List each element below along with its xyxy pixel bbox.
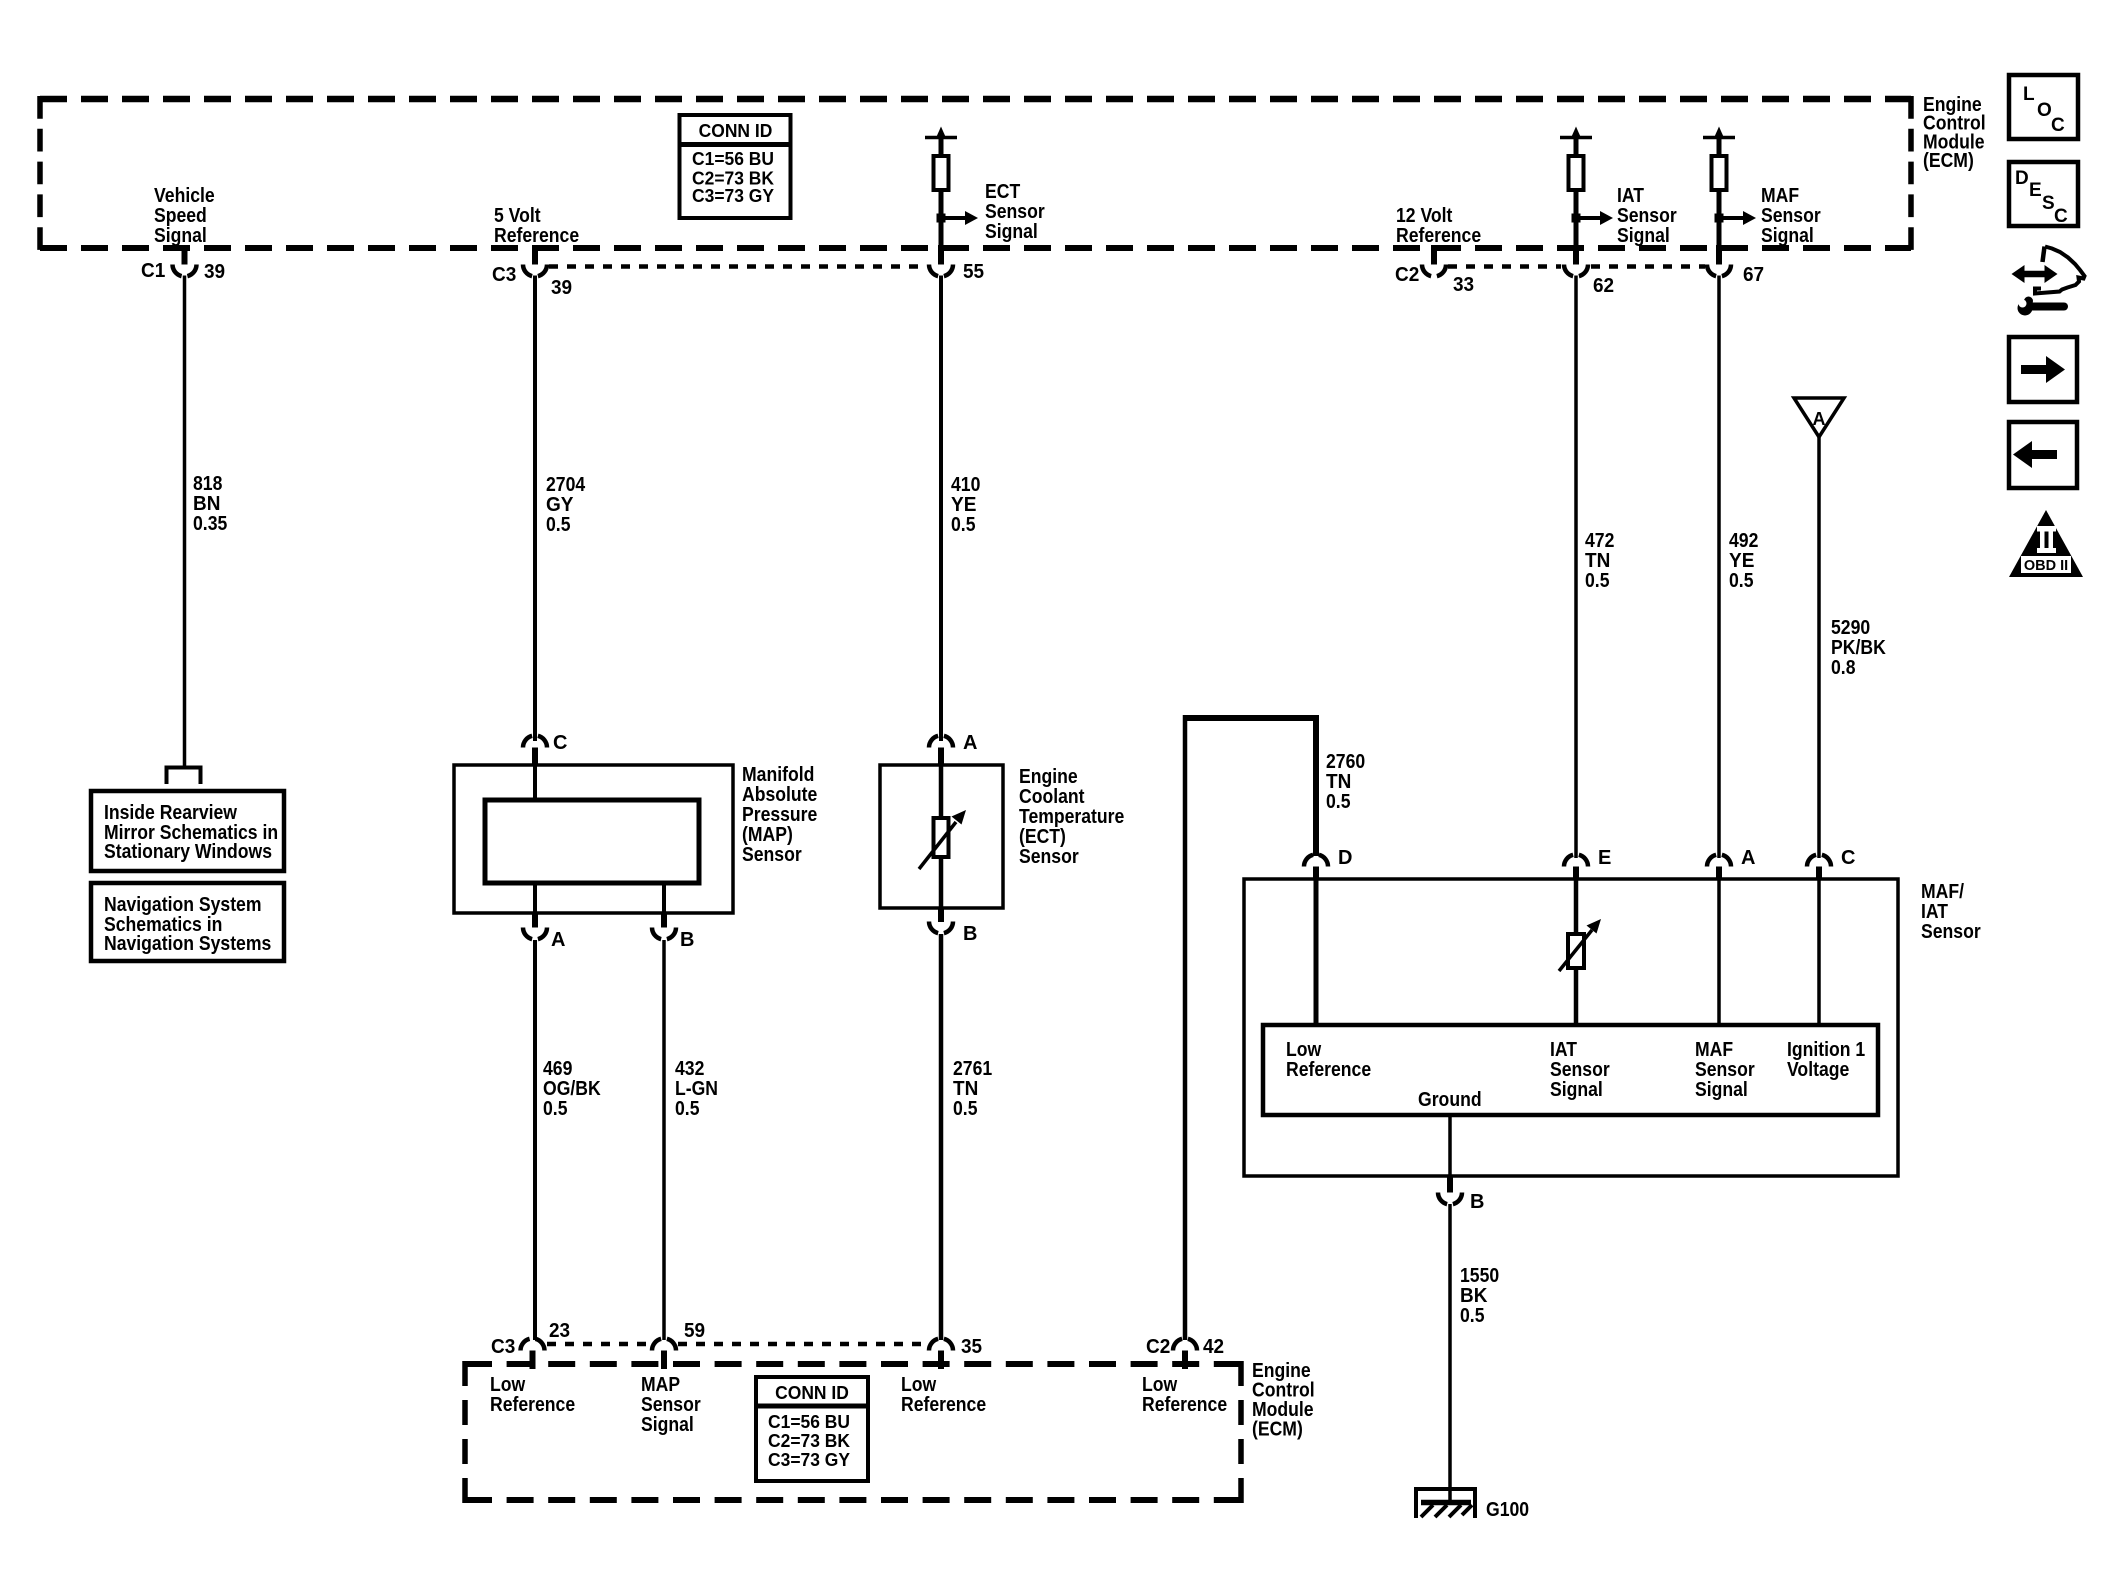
svg-text:Signal: Signal [985,221,1038,243]
node: CONN ID table (top) [680,115,791,218]
svg-text:(ECT): (ECT) [1019,826,1066,848]
svg-text:YE: YE [1729,550,1754,572]
wire 492 YE 0.5 [1717,276,1721,859]
svg-text:OG/BK: OG/BK [543,1078,601,1100]
wire: ECM bottom dashed box left edge [462,1361,468,1503]
svg-text:L-GN: L-GN [675,1078,718,1100]
svg-text:Reference: Reference [1142,1394,1227,1416]
thermistor ECT variable resistor [939,765,944,820]
svg-text:A: A [1813,409,1826,429]
svg-text:A: A [551,929,565,951]
svg-text:Sensor: Sensor [1761,205,1821,227]
svg-text:0.5: 0.5 [1326,791,1351,813]
wire: ECM top dashed box top edge [40,96,1911,103]
svg-text:59: 59 [684,1320,705,1342]
svg-text:0.5: 0.5 [546,514,571,536]
svg-text:Navigation Systems: Navigation Systems [104,933,271,955]
node: connector pin 59 [652,1339,676,1351]
wire 432 L-GN 0.5 [662,940,666,1340]
svg-text:Reference: Reference [1286,1059,1371,1081]
wire 2760 TN 0.5 [1183,715,1188,1340]
svg-text:0.5: 0.5 [543,1098,568,1120]
svg-text:Speed: Speed [154,205,207,227]
node: OBD II warning triangle [2009,510,2083,577]
node: ECT connector pin B [938,908,944,922]
svg-text:(ECM): (ECM) [1252,1419,1303,1441]
wire 1550 BK 0.5 [1448,1204,1452,1502]
node: MAF/IAT sensor outer box [1244,879,1898,1176]
svg-text:L: L [2023,84,2035,105]
wire 410 YE 0.5 [939,276,943,742]
svg-text:Sensor: Sensor [1550,1059,1610,1081]
wire: A internal [1717,879,1721,1025]
svg-text:C: C [1841,847,1855,869]
svg-text:Signal: Signal [1761,225,1814,247]
resistor R-MAF [1712,156,1727,190]
svg-text:C: C [553,732,567,754]
svg-text:C2=73 BK: C2=73 BK [768,1431,850,1451]
wire: dotted connector group line C3 (39-55) [549,264,927,269]
svg-text:0.5: 0.5 [1585,570,1610,592]
svg-text:MAF: MAF [1695,1039,1733,1061]
wire: D internal [1314,879,1319,1025]
svg-text:B: B [680,929,694,951]
svg-text:D: D [1338,847,1352,869]
wire: ground internal [1448,1115,1452,1176]
wire 469 OG/BK 0.5 [533,940,537,1340]
wire: ECM top dashed box right edge [1908,96,1914,251]
svg-text:55: 55 [963,261,984,283]
node: vehicle view icon (car with double arrow and wrench) [2024,271,2045,278]
svg-text:0.5: 0.5 [1729,570,1754,592]
node: connector pin 35 [929,1339,953,1351]
svg-text:C: C [2051,115,2065,136]
svg-text:C2: C2 [1146,1336,1170,1358]
svg-text:Absolute: Absolute [742,784,817,806]
node: connector pin 67 [1716,245,1722,265]
node: MAF/IAT connector pin D [1313,867,1319,880]
resistor pull-up R-MAF supply bar [1703,136,1735,140]
node: connector pin 55 [938,245,944,265]
svg-text:TN: TN [953,1078,978,1100]
svg-text:C3: C3 [491,1336,515,1358]
resistor pull-up R-IAT supply bar [1560,136,1592,140]
svg-text:Signal: Signal [1550,1079,1603,1101]
svg-text:GY: GY [546,494,574,516]
svg-text:67: 67 [1743,264,1764,286]
node: LOC icon box [2009,75,2078,139]
svg-text:(MAP): (MAP) [742,824,793,846]
svg-text:39: 39 [551,277,572,299]
svg-text:Temperature: Temperature [1019,806,1124,828]
svg-text:2704: 2704 [546,474,586,496]
svg-text:Low: Low [901,1374,937,1396]
svg-text:818: 818 [193,473,222,495]
svg-text:IAT: IAT [1921,901,1948,923]
wire: C internal [1817,879,1821,1025]
wire 472 TN 0.5 [1574,276,1578,859]
node: MAP connector pin A [532,913,538,928]
svg-text:Low: Low [490,1374,526,1396]
svg-text:C1=56 BU: C1=56 BU [768,1412,850,1432]
svg-text:Signal: Signal [1695,1079,1748,1101]
node: MAF/IAT connector pin E [1573,867,1579,880]
node: connector C1 pin 39 [182,245,188,265]
resistor pull-up R-ECT supply bar [925,136,957,140]
svg-text:492: 492 [1729,530,1758,552]
svg-text:0.5: 0.5 [953,1098,978,1120]
svg-text:Manifold: Manifold [742,764,814,786]
svg-text:0.5: 0.5 [675,1098,700,1120]
node: Navigation System reference box [91,883,284,961]
svg-text:G100: G100 [1486,1499,1529,1521]
svg-text:410: 410 [951,474,980,496]
svg-text:MAF: MAF [1761,185,1799,207]
thermistor IAT variable resistor [1568,934,1584,968]
node R-ECT junction [937,214,946,223]
svg-text:YE: YE [951,494,976,516]
svg-text:Sensor: Sensor [1695,1059,1755,1081]
node: connector pin 62 [1573,245,1579,265]
wire: ECM top dashed box bottom edge [40,245,1911,251]
wire: E internal [1574,879,1579,1025]
svg-text:Voltage: Voltage [1787,1059,1849,1081]
wire: ECM bottom dashed box right edge [1238,1361,1244,1503]
wire R-ECT resistor to connector [939,190,944,246]
svg-text:CONN ID: CONN ID [699,121,773,141]
svg-text:Stationary Windows: Stationary Windows [104,841,272,863]
node: Inside Rearview Mirror reference box [91,791,284,871]
svg-text:0.5: 0.5 [1460,1305,1485,1327]
wire: ECM top dashed box left edge [37,96,43,251]
svg-text:IAT: IAT [1550,1039,1577,1061]
svg-text:C: C [2054,206,2068,227]
svg-text:BK: BK [1460,1285,1488,1307]
svg-text:Navigation System: Navigation System [104,894,262,916]
svg-text:42: 42 [1203,1336,1224,1358]
node: ECT sensor box [880,765,1003,908]
node: staple branch to reference boxes [167,768,201,785]
node: CONN ID table (bottom) [756,1377,868,1481]
node: connector C3 pin 23 [521,1339,545,1351]
node: connector C2 pin 42 [1173,1339,1197,1351]
svg-text:D: D [2015,168,2029,189]
svg-text:62: 62 [1593,275,1614,297]
svg-text:472: 472 [1585,530,1614,552]
svg-text:C3=73 GY: C3=73 GY [768,1450,850,1470]
node: MAP connector pin B [661,913,667,928]
svg-text:C3: C3 [492,264,516,286]
node: MAP sensor outer box [454,765,733,913]
svg-text:Low: Low [1286,1039,1322,1061]
node R-IAT junction [1572,214,1581,223]
svg-text:C3=73 GY: C3=73 GY [692,186,774,206]
ground G100 [1416,1489,1475,1518]
node: MAF/IAT connector pin C [1816,867,1822,880]
svg-text:5290: 5290 [1831,617,1870,639]
svg-text:Sensor: Sensor [1617,205,1677,227]
svg-text:1550: 1550 [1460,1265,1499,1287]
svg-text:A: A [963,732,977,754]
svg-text:Sensor: Sensor [742,844,802,866]
node: back arrow icon [2009,422,2077,488]
node: DESC icon box [2009,162,2078,226]
svg-text:B: B [963,923,977,945]
node R-MAF junction [1715,214,1724,223]
svg-text:(ECM): (ECM) [1923,150,1974,172]
svg-text:OBD II: OBD II [2024,558,2068,574]
wire R-IAT resistor to connector [1574,190,1579,246]
wire: dotted connector group line C3 (23-59-35) [547,1342,650,1347]
svg-text:PK/BK: PK/BK [1831,637,1886,659]
svg-text:Sensor: Sensor [641,1394,701,1416]
svg-text:469: 469 [543,1058,572,1080]
svg-text:Inside Rearview: Inside Rearview [104,802,237,824]
resistor R-IAT [1569,156,1584,190]
wire 2704 GY 0.5 [533,276,537,742]
svg-text:O: O [2037,100,2052,121]
svg-text:432: 432 [675,1058,704,1080]
svg-text:E: E [1598,847,1611,869]
node A: off-page triangle reference [1794,398,1844,437]
wire 2761 TN 0.5 [939,934,944,1340]
wire 5290 PK/BK 0.8 [1817,437,1821,858]
svg-text:23: 23 [549,1320,570,1342]
wire: ECM bottom dashed box top edge [465,1361,1241,1367]
svg-text:Low: Low [1142,1374,1178,1396]
svg-text:E: E [2029,180,2042,201]
svg-text:33: 33 [1453,274,1474,296]
node: connector C3 pin 39 [532,245,538,265]
svg-text:Signal: Signal [1617,225,1670,247]
svg-text:Reference: Reference [494,225,579,247]
resistor R-ECT [934,156,949,190]
svg-text:2761: 2761 [953,1058,992,1080]
svg-text:C1: C1 [141,260,165,282]
svg-text:A: A [1741,847,1755,869]
svg-text:0.8: 0.8 [1831,657,1856,679]
svg-text:Reference: Reference [901,1394,986,1416]
svg-text:C2: C2 [1395,264,1419,286]
svg-text:IAT: IAT [1617,185,1644,207]
svg-text:Coolant: Coolant [1019,786,1085,808]
svg-text:Engine: Engine [1019,766,1078,788]
wire R-MAF resistor to connector [1717,190,1722,246]
svg-text:Pressure: Pressure [742,804,817,826]
svg-text:Sensor: Sensor [1921,921,1981,943]
wire 818 BN 0.35 [183,276,187,767]
svg-text:B: B [1470,1191,1484,1213]
svg-text:39: 39 [204,261,225,283]
svg-text:Vehicle: Vehicle [154,185,215,207]
svg-text:0.35: 0.35 [193,513,227,535]
node: MAP connector pin C [532,748,538,766]
svg-text:35: 35 [961,1336,982,1358]
svg-text:TN: TN [1585,550,1610,572]
svg-text:MAP: MAP [641,1374,680,1396]
svg-text:5 Volt: 5 Volt [494,205,541,227]
node: MAP sensor inner element [485,800,699,883]
wire: dotted connector group line C2 (33-62-67) [1448,264,1561,269]
svg-text:12 Volt: 12 Volt [1396,205,1453,227]
svg-text:CONN ID: CONN ID [775,1383,849,1403]
node: ECT connector pin A [938,748,944,766]
node: forward arrow icon [2009,337,2077,402]
svg-text:Sensor: Sensor [1019,846,1079,868]
svg-text:BN: BN [193,493,220,515]
node: MAF/IAT inner terminal box [1263,1025,1878,1115]
wire: ECM bottom dashed box bottom edge [465,1497,1241,1503]
svg-text:Signal: Signal [641,1414,694,1436]
node: connector C2 pin 33 [1431,245,1437,265]
svg-text:MAF/: MAF/ [1921,881,1964,903]
svg-text:S: S [2042,193,2055,214]
node: MAF/IAT connector pin B [1447,1176,1453,1193]
svg-text:TN: TN [1326,771,1351,793]
svg-text:2760: 2760 [1326,751,1365,773]
svg-text:Sensor: Sensor [985,201,1045,223]
svg-text:Reference: Reference [1396,225,1481,247]
svg-text:Reference: Reference [490,1394,575,1416]
svg-text:0.5: 0.5 [951,514,976,536]
svg-text:C1=56 BU: C1=56 BU [692,149,774,169]
svg-text:ECT: ECT [985,181,1020,203]
svg-text:Ignition 1: Ignition 1 [1787,1039,1865,1061]
node: MAF/IAT connector pin A [1716,867,1722,880]
svg-text:Signal: Signal [154,225,207,247]
svg-text:Ground: Ground [1418,1089,1482,1111]
